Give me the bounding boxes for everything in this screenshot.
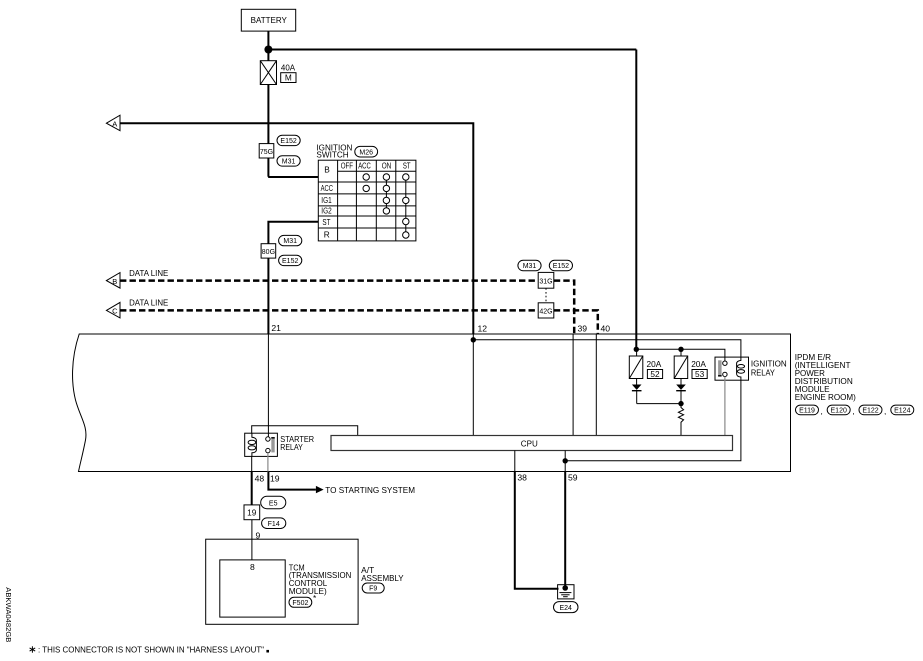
wire ignition relay coil return (565, 380, 741, 461)
svg-text:40A: 40A (281, 62, 296, 72)
connector M31 oval above 31G (518, 260, 541, 270)
wire 9 to TCM (251, 520, 253, 560)
svg-text:,: , (852, 406, 854, 416)
node diode junction (678, 401, 683, 406)
svg-text:E152: E152 (553, 263, 569, 270)
wire fuse bus (636, 349, 725, 361)
svg-text:CPU: CPU (521, 439, 538, 449)
connector 31G (538, 272, 554, 288)
svg-text:,: , (821, 406, 823, 416)
wire battery bus top (268, 49, 636, 51)
TCM box (220, 560, 285, 617)
resistor to CPU (678, 404, 683, 436)
connector 80G (M31/E152) (261, 235, 302, 265)
wire 38 to ground (515, 472, 559, 589)
svg-text:E120: E120 (831, 408, 847, 415)
ignition relay (715, 357, 749, 435)
ignition switch table M26 (318, 160, 416, 241)
svg-text:ABKWA0482GB: ABKWA0482GB (4, 587, 13, 642)
connector F502 oval (289, 597, 312, 607)
svg-text:ASSEMBLY: ASSEMBLY (361, 573, 404, 583)
wire pin 48 from starter relay coil (251, 456, 253, 471)
svg-text:RELAY: RELAY (751, 368, 775, 378)
svg-text:B: B (112, 277, 117, 286)
svg-text:38: 38 (517, 473, 527, 483)
svg-text:53: 53 (695, 369, 705, 379)
svg-text:ST: ST (322, 217, 330, 227)
wire pin 21 to starter relay contact (267, 334, 269, 437)
fuse 52 20A (629, 349, 662, 379)
svg-text:M26: M26 (359, 149, 373, 156)
node coil return to pin 59 (563, 458, 568, 463)
svg-text:M31: M31 (283, 238, 297, 245)
wire 59 to ground (564, 472, 566, 589)
svg-text:42G: 42G (539, 308, 552, 315)
svg-text:20A: 20A (691, 359, 706, 369)
svg-text:ON: ON (382, 160, 392, 170)
svg-text:IG1: IG1 (321, 195, 332, 205)
svg-text:M: M (285, 73, 292, 83)
svg-text:E24: E24 (559, 605, 572, 612)
connector E24 oval (554, 602, 579, 613)
svg-text:ACC: ACC (321, 183, 333, 193)
svg-text:31G: 31G (539, 278, 552, 285)
svg-text:F14: F14 (268, 521, 280, 528)
svg-text:E152: E152 (282, 258, 298, 265)
connector E122 oval (859, 405, 882, 415)
wire pin 40 to CPU (595, 334, 597, 436)
node battery junction (264, 46, 272, 54)
ground E24 (558, 585, 574, 599)
svg-text:39: 39 (578, 323, 588, 333)
svg-text:E5: E5 (269, 500, 278, 507)
node fuse 53 tap (678, 347, 683, 352)
svg-text:19: 19 (247, 508, 257, 518)
svg-text:F502: F502 (292, 600, 308, 607)
svg-text:E152: E152 (280, 138, 296, 145)
wire bus to ignition relay coil (473, 340, 741, 357)
dotted link 31G-42G (545, 288, 547, 303)
svg-text:12: 12 (478, 323, 488, 333)
svg-text:ST: ST (403, 160, 411, 170)
svg-text:RELAY: RELAY (280, 442, 303, 452)
wire diode junction bus (637, 403, 681, 405)
svg-text:ACC: ACC (358, 160, 371, 170)
svg-text:ENGINE ROOM): ENGINE ROOM) (795, 392, 856, 402)
footnote (30, 646, 36, 652)
svg-text:TO STARTING SYSTEM: TO STARTING SYSTEM (325, 485, 415, 495)
svg-text:75G: 75G (260, 149, 273, 156)
diode under fuse 53 (676, 379, 686, 404)
wire data line C to pin 40 (554, 310, 598, 334)
svg-text:M31: M31 (523, 263, 537, 270)
wire ignition switch ST to pin 21 (268, 222, 318, 334)
ignition switch contact links ST column (405, 177, 407, 235)
connector E152 oval above 31G (549, 260, 572, 270)
connector M26 oval (355, 146, 378, 157)
svg-text:IG2: IG2 (321, 205, 332, 215)
connector E120 oval (827, 405, 850, 415)
svg-text:21: 21 (271, 323, 281, 333)
diode under fuse 52 (632, 379, 642, 404)
ignition switch contact links ON column (385, 177, 387, 211)
A/T assembly box (206, 539, 358, 624)
wire data line C (120, 309, 538, 312)
svg-text:59: 59 (568, 473, 578, 483)
svg-text:48: 48 (255, 473, 265, 483)
connector 19 (E5/F14) (244, 496, 286, 528)
svg-text:: THIS CONNECTOR IS NOT SHOWN: : THIS CONNECTOR IS NOT SHOWN IN "HARNES… (38, 645, 264, 655)
node battery bus junction (634, 347, 639, 352)
arrow to starting system (316, 486, 324, 493)
svg-text:8: 8 (250, 562, 255, 572)
connector E124 oval (891, 405, 914, 415)
wire data line B to pin 39 (554, 281, 574, 334)
wire starter relay coil to CPU (252, 426, 358, 436)
wire 48 to connector 19 (251, 472, 253, 505)
fuse 53 20A (674, 349, 707, 379)
svg-text:R: R (324, 230, 330, 240)
svg-text:E122: E122 (862, 408, 878, 415)
svg-text:OFF: OFF (341, 160, 353, 170)
svg-text:M31: M31 (282, 159, 296, 166)
connector E119 oval (796, 405, 819, 415)
svg-text:C: C (112, 307, 118, 316)
svg-text:20A: 20A (647, 359, 662, 369)
IPDM E/R box outline (73, 334, 791, 472)
fusible link 40A M (260, 61, 296, 85)
node C arrow (106, 302, 120, 318)
ignition switch contacts (363, 174, 409, 238)
svg-text:DATA LINE: DATA LINE (129, 268, 169, 278)
starter relay (245, 433, 278, 471)
svg-text:A: A (112, 119, 117, 128)
svg-text:SWITCH: SWITCH (316, 150, 348, 160)
wire pin 38 from CPU (514, 451, 516, 472)
connector 42G (538, 303, 554, 318)
svg-text:,: , (884, 406, 886, 416)
wire pin 39 to CPU (572, 334, 574, 436)
node pin 12 junction (471, 337, 476, 342)
svg-text:F9: F9 (369, 586, 377, 593)
svg-text:40: 40 (601, 323, 611, 333)
svg-text:MODULE): MODULE) (289, 586, 327, 596)
wire A to pin 12 (120, 123, 473, 334)
node A arrow (106, 115, 120, 131)
wire pin 59 from CPU (564, 451, 566, 472)
CPU box (331, 436, 733, 451)
wire fusible link to ignition switch B terminal (268, 85, 318, 178)
TCM label (289, 562, 352, 596)
svg-text:E119: E119 (799, 408, 815, 415)
svg-text:B: B (324, 165, 330, 175)
svg-text:19: 19 (270, 473, 280, 483)
svg-text:80G: 80G (262, 249, 275, 256)
wire battery to junction (267, 31, 269, 61)
svg-text:E124: E124 (894, 408, 910, 415)
connector F9 oval (362, 583, 384, 593)
wire battery bus right down (635, 50, 637, 350)
IPDM E/R label (795, 352, 856, 402)
svg-text:BATTERY: BATTERY (251, 15, 288, 25)
svg-text:52: 52 (650, 369, 660, 379)
battery B1 (241, 9, 295, 31)
node B arrow (106, 273, 120, 289)
connector 75G (E152/M31) (259, 135, 300, 166)
wire data line B (120, 279, 538, 282)
svg-text:DATA LINE: DATA LINE (129, 298, 169, 308)
wire 19 to starting system (268, 472, 316, 490)
wire pin 12 to CPU (472, 334, 474, 436)
